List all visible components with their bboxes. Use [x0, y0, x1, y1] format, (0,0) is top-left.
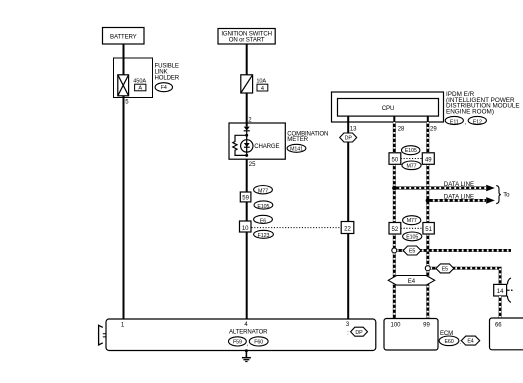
- svg-text:DATA LINE: DATA LINE: [444, 194, 474, 201]
- connector 52 box: [389, 223, 401, 235]
- connector E105 oval pair2: [403, 232, 422, 241]
- wire battery column: [123, 44, 125, 320]
- svg-text:DP: DP: [355, 330, 363, 336]
- svg-text:E6: E6: [260, 218, 266, 224]
- pin stubs CPU: [394, 116, 428, 122]
- svg-text:51: 51: [425, 227, 432, 233]
- svg-text:52: 52: [392, 227, 399, 233]
- connector F60 oval: [249, 337, 268, 346]
- svg-text:100: 100: [390, 322, 401, 328]
- svg-text:F4: F4: [161, 85, 167, 91]
- connector F4 oval: [155, 83, 172, 92]
- E5 tag right: [436, 264, 454, 273]
- resistor branch: [233, 135, 247, 155]
- connector 59 box: [240, 192, 251, 202]
- E4 harness band: [388, 276, 435, 286]
- connector M77 oval pair1: [402, 161, 421, 170]
- connector M77 oval: [254, 186, 273, 195]
- svg-text:450A: 450A: [133, 79, 146, 85]
- connector E105 oval: [254, 201, 273, 210]
- svg-text:E60: E60: [444, 339, 453, 345]
- svg-text:E5: E5: [442, 266, 448, 272]
- diode inside meter: [244, 123, 250, 155]
- label FUSIBLE LINK HOLDER: [155, 63, 180, 82]
- ground: [242, 351, 251, 362]
- IPDM E/R outer box: [332, 92, 444, 122]
- svg-text:E5: E5: [409, 249, 415, 255]
- fusible link holder box: [114, 58, 153, 98]
- ground node: [245, 349, 248, 352]
- svg-text:14: 14: [497, 289, 504, 295]
- svg-text:E4: E4: [467, 339, 473, 345]
- svg-text:E4: E4: [408, 279, 416, 285]
- dotted link 52 to 51: [401, 227, 423, 229]
- connector 50 box: [389, 153, 401, 165]
- svg-text:A: A: [138, 86, 142, 92]
- svg-text:50: 50: [392, 157, 399, 163]
- svg-text:METER: METER: [287, 136, 308, 143]
- node junction data line 2: [426, 198, 430, 202]
- svg-text:M77: M77: [407, 218, 417, 224]
- svg-text:DATA LINE: DATA LINE: [444, 181, 474, 188]
- data line 1: [394, 181, 495, 191]
- connector E11 oval: [445, 116, 463, 125]
- connector 22 box: [341, 222, 354, 234]
- svg-text:M77: M77: [406, 163, 416, 169]
- connector 51 box: [423, 223, 434, 235]
- wire DP column: [347, 116, 349, 320]
- connector F123 oval: [254, 230, 274, 239]
- data line 2: [428, 194, 495, 204]
- svg-text:66: 66: [495, 322, 502, 328]
- svg-text:To: To: [503, 191, 510, 198]
- ignition switch box: [218, 29, 275, 45]
- alternator box: [106, 319, 376, 351]
- DP tag alternator: [351, 327, 368, 336]
- charge lamp LED: [241, 140, 253, 152]
- connector 14 page arcs: [507, 278, 513, 303]
- svg-text:CPU: CPU: [382, 105, 394, 112]
- svg-text:F123: F123: [258, 233, 270, 239]
- wire ignition column: [246, 44, 248, 320]
- fuse letter A box: [135, 84, 146, 92]
- svg-text:22: 22: [344, 227, 351, 233]
- svg-text:59: 59: [242, 196, 249, 202]
- svg-text:E105: E105: [406, 235, 418, 241]
- svg-text:E105: E105: [257, 204, 269, 210]
- combination meter box M141: [229, 123, 285, 159]
- alternator terminal bracket: [99, 325, 106, 345]
- fuse 10A symbol: [241, 75, 267, 93]
- connector 14 box: [494, 284, 507, 296]
- svg-text:25: 25: [249, 162, 256, 168]
- svg-text:CHARGE: CHARGE: [254, 143, 279, 150]
- CAN bus column pin28: [393, 122, 396, 319]
- svg-text:ENGINE ROOM): ENGINE ROOM): [446, 108, 494, 115]
- connector M77 oval pair2: [403, 216, 421, 225]
- connector F59 oval: [229, 337, 247, 346]
- dotted link 50 to 49: [401, 158, 423, 160]
- connector E60 oval: [439, 336, 459, 346]
- svg-text:13: 13: [350, 127, 357, 133]
- connector E105 oval pair1: [402, 146, 420, 155]
- connector 10 box: [240, 221, 252, 232]
- svg-text:HOLDER: HOLDER: [155, 74, 180, 81]
- svg-text:M141: M141: [290, 147, 303, 153]
- CPU inner box: [338, 99, 439, 117]
- svg-text:4: 4: [261, 86, 264, 92]
- svg-text:BATTERY: BATTERY: [110, 33, 137, 40]
- branch line E5 left: [397, 249, 511, 252]
- svg-text:E105: E105: [405, 148, 417, 154]
- node bottom junction: [245, 154, 248, 157]
- connector M141 oval: [287, 144, 306, 152]
- svg-text:E12: E12: [473, 119, 482, 125]
- E5 tag left: [403, 246, 421, 255]
- label IPDM E/R: [446, 91, 520, 116]
- svg-text:28: 28: [398, 127, 405, 133]
- fusible link symbol 450A: [118, 75, 147, 96]
- ECM box: [384, 319, 438, 351]
- node circle E5 right: [425, 266, 430, 271]
- svg-text:ON or START: ON or START: [229, 37, 265, 44]
- svg-text:DP: DP: [345, 136, 353, 142]
- dotted link 10 to 22: [252, 227, 342, 229]
- svg-text:F59: F59: [233, 340, 242, 346]
- fuse number 4 box: [257, 84, 268, 92]
- connector E12 oval: [468, 116, 486, 125]
- branch line E5 right: [430, 268, 500, 284]
- svg-text:M77: M77: [258, 189, 268, 195]
- node junction data line 1: [392, 186, 396, 190]
- right module box: [490, 318, 523, 350]
- CAN bus column pin29: [426, 122, 429, 319]
- connector E6 oval: [254, 215, 273, 224]
- E4 tag ECM: [461, 336, 479, 345]
- svg-text:29: 29: [430, 127, 437, 133]
- svg-text:F60: F60: [254, 340, 263, 346]
- label COMBINATION METER: [287, 130, 328, 143]
- svg-text:10A: 10A: [256, 78, 266, 84]
- battery B+ box: [103, 28, 145, 45]
- svg-text:99: 99: [423, 322, 430, 328]
- node top junction: [245, 134, 248, 137]
- svg-text:E11: E11: [450, 119, 459, 125]
- bus below 14: [499, 296, 502, 318]
- DP tag top: [340, 133, 357, 142]
- svg-text:10: 10: [242, 226, 249, 232]
- svg-text:ALTERNATOR: ALTERNATOR: [229, 329, 268, 336]
- brace to CAN: [496, 186, 501, 204]
- svg-text:49: 49: [425, 157, 432, 163]
- node circle E5 left: [392, 248, 397, 253]
- connector 49 box: [422, 153, 434, 165]
